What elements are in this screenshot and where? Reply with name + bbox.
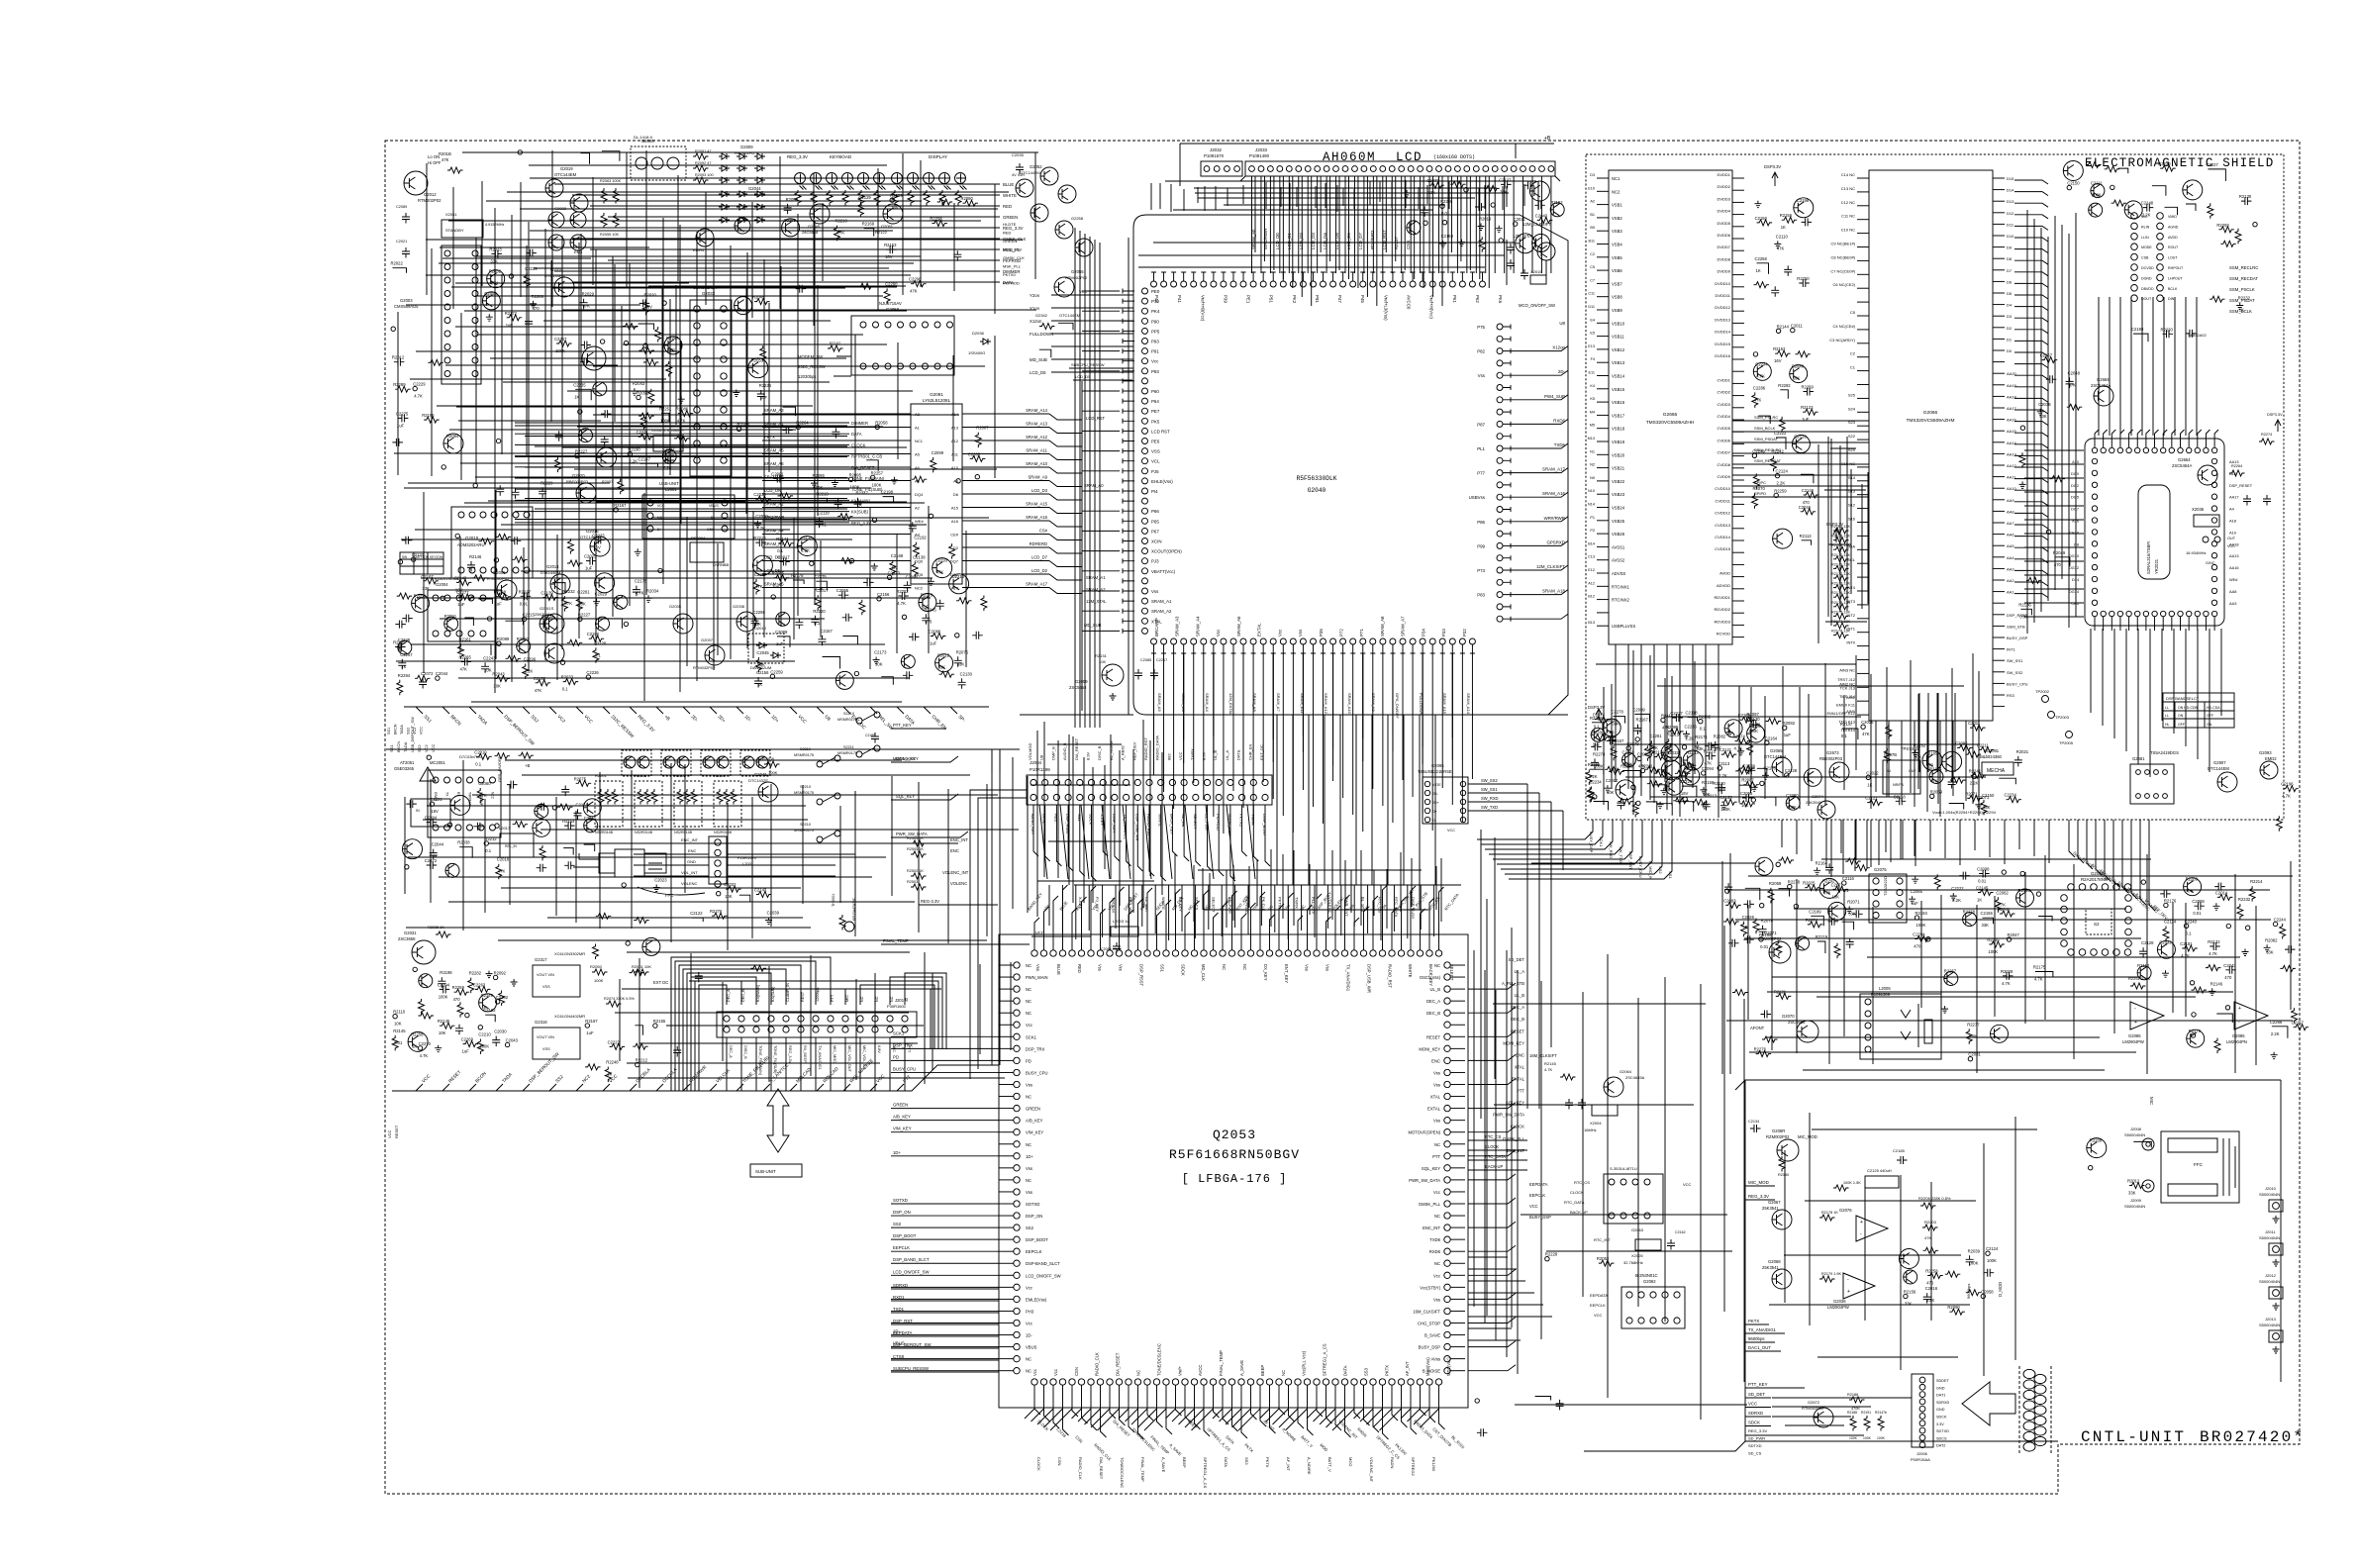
svg-text:DCVDD: DCVDD — [2141, 266, 2154, 270]
svg-text:GND: GND — [687, 859, 696, 864]
svg-text:1K: 1K — [401, 664, 406, 669]
svg-text:DSP_ON: DSP_ON — [893, 1210, 911, 1215]
svg-text:DEC_B: DEC_B — [1426, 1011, 1440, 1016]
svg-text:42: 42 — [905, 998, 909, 1002]
svg-text:TADA: TADA — [403, 741, 408, 752]
resistor R2074 330K — [606, 1001, 622, 1007]
svg-text:CLOCK: CLOCK — [1036, 1457, 1041, 1471]
wire bus AA D between dsp2 and sdram — [2026, 210, 2028, 634]
svg-text:G2022: G2022 — [554, 206, 567, 211]
svg-text:Vss: Vss — [1026, 1083, 1032, 1088]
svg-text:C6 NC(CE2): C6 NC(CE2) — [1833, 282, 1856, 287]
svg-text:10K: 10K — [1099, 659, 1106, 664]
svg-text:2.2K: 2.2K — [1970, 780, 1979, 785]
svg-text:LCD_RST: LCD_RST — [1086, 416, 1106, 421]
svg-text:C2124: C2124 — [1776, 469, 1789, 474]
svg-text:SD_CS: SD_CS — [1748, 1451, 1762, 1456]
cluster mid-left mc2051 zone — [427, 755, 431, 759]
svg-text:1K: 1K — [412, 1043, 417, 1048]
svg-text:S22: S22 — [1848, 434, 1856, 439]
svg-text:R2297: R2297 — [666, 336, 679, 341]
svg-text:10K: 10K — [493, 684, 501, 689]
svg-text:RXD1: RXD1 — [893, 1295, 905, 1300]
svg-text:NS2R014B: NS2R014B — [595, 831, 614, 834]
svg-text:C2192: C2192 — [914, 536, 927, 540]
svg-text:Vcc: Vcc — [1216, 629, 1221, 637]
svg-text:RZM002P02: RZM002P02 — [1766, 1134, 1790, 1139]
svg-text:R2176: R2176 — [2164, 899, 2177, 904]
svg-text:LCD_D5: LCD_D5 — [1030, 370, 1046, 375]
svg-text:CHG_STOP: CHG_STOP — [1418, 1322, 1440, 1326]
wire routing weave below header — [1165, 180, 1536, 182]
svg-text:CVDD6: CVDD6 — [1717, 438, 1730, 442]
svg-text:C2269: C2269 — [784, 218, 797, 223]
svg-text:MD_SUB: MD_SUB — [1084, 623, 1102, 628]
svg-text:R2152: R2152 — [1773, 346, 1786, 351]
svg-text:S5000404N: S5000404N — [2259, 1279, 2280, 1284]
transistor G2049 28C5658 — [810, 204, 830, 224]
svg-text:2.2K: 2.2K — [663, 465, 672, 470]
svg-text:1uF: 1uF — [1593, 742, 1601, 747]
svg-text:NC: NC — [1434, 1142, 1440, 1147]
svg-text:VSB10: VSB10 — [1612, 321, 1625, 326]
svg-text:R2182: R2182 — [1699, 715, 1712, 720]
svg-text:R2213: R2213 — [816, 491, 829, 496]
cluster tl lower extra B — [773, 475, 784, 483]
svg-text:P64: P64 — [1151, 399, 1159, 404]
svg-text:DISP_BUSY: DISP_BUSY — [1262, 814, 1267, 836]
svg-text:R2178: R2178 — [791, 573, 804, 578]
svg-text:AA17: AA17 — [2229, 495, 2239, 500]
svg-text:E10: E10 — [1588, 186, 1595, 190]
svg-text:SS2: SS2 — [554, 1074, 564, 1084]
fet G2055 RTM002P02 — [1054, 277, 1074, 297]
svg-text:BACK_KEY: BACK_KEY — [1169, 814, 1174, 834]
svg-text:DAT&: DAT& — [1236, 749, 1241, 760]
svg-text:D_MIC_IN: D_MIC_IN — [1648, 861, 1653, 880]
svg-text:2SC5658: 2SC5658 — [1069, 685, 1087, 690]
svg-text:R2504 1K: R2504 1K — [907, 836, 924, 840]
svg-text:D11: D11 — [2007, 222, 2014, 227]
svg-text:10K: 10K — [1832, 894, 1840, 899]
box L2017 filter — [500, 833, 534, 857]
svg-text:SD_PWR: SD_PWR — [1748, 1436, 1765, 1441]
svg-text:R2280: R2280 — [1592, 731, 1605, 735]
svg-text:C2039: C2039 — [767, 911, 780, 916]
svg-text:Vss: Vss — [1433, 1071, 1440, 1076]
sdram qfp top pin row — [2092, 447, 2097, 452]
svg-text:D14: D14 — [2007, 188, 2014, 193]
svg-text:VSB12: VSB12 — [1612, 347, 1625, 352]
svg-text:100K: 100K — [1849, 1436, 1858, 1440]
wire encoder signals — [634, 843, 855, 876]
svg-text:VCC: VCC — [1594, 1313, 1603, 1318]
svg-text:D7: D7 — [2007, 268, 2013, 273]
cluster antenna matching — [561, 786, 569, 797]
svg-text:1uF: 1uF — [585, 566, 593, 571]
svg-text:0.1: 0.1 — [777, 548, 783, 553]
svg-text:EXT_DC: EXT_DC — [850, 714, 867, 731]
svg-text:EMU0 K11: EMU0 K11 — [1836, 703, 1856, 708]
svg-text:PKTX0: PKTX0 — [1003, 272, 1016, 277]
svg-text:CVDD5: CVDD5 — [1717, 426, 1730, 431]
svg-text:TP2003: TP2003 — [2055, 715, 2070, 720]
svg-text:R2239: R2239 — [2158, 161, 2171, 166]
svg-text:R2238: R2238 — [494, 590, 507, 595]
svg-text:R2087: R2087 — [976, 426, 989, 431]
wire routing weave top-left B — [440, 246, 649, 248]
svg-text:NC2: NC2 — [915, 586, 924, 591]
svg-text:SPTREG1_A_CS: SPTREG1_A_CS — [1203, 1457, 1208, 1489]
svg-text:C2118: C2118 — [1686, 710, 1699, 715]
svg-text:LCD_D7: LCD_D7 — [1031, 555, 1048, 560]
svg-text:C2244: C2244 — [1755, 361, 1768, 366]
svg-text:SS2: SS2 — [417, 744, 422, 752]
svg-text:RTCINX2: RTCINX2 — [1612, 598, 1630, 603]
svg-text:G2085: G2085 — [2128, 1033, 2141, 1038]
svg-text:SDTXD: SDTXD — [1936, 1429, 1949, 1433]
svg-text:REG_3.3V: REG_3.3V — [1748, 1428, 1767, 1433]
svg-text:C2243: C2243 — [483, 655, 496, 660]
cluster tl mid extra C — [639, 299, 650, 307]
svg-text:AVCC0: AVCC0 — [1407, 295, 1412, 310]
svg-text:AVss: AVss — [1431, 1357, 1440, 1362]
svg-text:WHITE: WHITE — [1408, 964, 1413, 978]
svg-text:R2094: R2094 — [446, 434, 459, 439]
svg-text:C8 NC(BE0#): C8 NC(BE0#) — [1831, 254, 1856, 259]
svg-text:AVDD: AVDD — [1719, 571, 1730, 576]
svg-text:2SC5464A: 2SC5464A — [2091, 383, 2111, 388]
svg-text:SRAM_A18: SRAM_A18 — [1542, 589, 1565, 594]
svg-text:P87: P87 — [1477, 422, 1485, 427]
svg-text:C2094: C2094 — [1702, 766, 1715, 771]
svg-text:LCD_D5: LCD_D5 — [1334, 233, 1339, 249]
svg-text:100K: 100K — [2092, 193, 2102, 198]
svg-text:MODE: MODE — [2141, 245, 2152, 249]
svg-text:DEC_A: DEC_A — [727, 989, 731, 1002]
svg-text:SRAM_A2: SRAM_A2 — [1151, 609, 1172, 614]
svg-text:SDCK: SDCK — [1180, 964, 1185, 976]
svg-text:+B: +B — [1742, 925, 1748, 930]
svg-text:0.01: 0.01 — [1760, 944, 1769, 949]
transistor G2907 DTC144EM right bottom shield — [2217, 772, 2237, 792]
fet G2012 RTM202P02 standby switch — [404, 171, 428, 195]
svg-text:A16: A16 — [951, 519, 959, 524]
svg-text:DSP3.3V: DSP3.3V — [1764, 164, 1781, 169]
wire verticals MCU bottom to bus — [1153, 653, 1155, 728]
svg-text:NC2: NC2 — [1612, 189, 1620, 194]
svg-text:2.2K: 2.2K — [1952, 898, 1961, 903]
svg-text:PTT: PTT — [902, 1074, 912, 1084]
svg-text:C2072: C2072 — [425, 858, 438, 863]
svg-text:R2228: R2228 — [1545, 1252, 1558, 1257]
svg-text:G2070: G2070 — [1782, 1014, 1795, 1019]
wire +B feed over LCD header — [1180, 144, 1554, 186]
svg-text:R2179 1.9K: R2179 1.9K — [1821, 1272, 1842, 1276]
inductor C2125 440uH — [1865, 1176, 1899, 1188]
svg-text:AA3: AA3 — [2229, 601, 2236, 606]
svg-text:LCD RST: LCD RST — [1151, 429, 1170, 434]
svg-text:B9: B9 — [1590, 226, 1595, 230]
svg-text:SS2: SS2 — [893, 1222, 902, 1226]
svg-text:R2212: R2212 — [636, 1058, 648, 1063]
wire vertical right edge audio box — [2280, 1080, 2282, 1382]
svg-text:XTAL: XTAL — [1430, 1095, 1441, 1100]
svg-text:UL_A: UL_A — [1515, 969, 1525, 974]
wire trunk vertical at 1140 — [1128, 238, 1129, 715]
svg-text:R2093 100: R2093 100 — [695, 173, 714, 177]
ic Q2053 left pin col — [1014, 962, 1020, 968]
wire main bottom bus of top-left section — [404, 706, 989, 708]
svg-text:R2169: R2169 — [862, 222, 875, 227]
cluster left of sdram RC — [2020, 426, 2024, 430]
fet G2011 25K3541 pair — [544, 614, 564, 634]
svg-text:C2178: C2178 — [635, 579, 647, 584]
svg-text:R2259: R2259 — [1774, 488, 1787, 493]
svg-text:C2072: C2072 — [421, 671, 434, 676]
svg-text:R2188: R2188 — [1847, 1411, 1857, 1415]
svg-text:10K: 10K — [875, 662, 883, 667]
svg-text:G2055: G2055 — [1071, 269, 1084, 274]
svg-text:RPTRB01_C.CB: RPTRB01_C.CB — [851, 454, 882, 459]
svg-text:R2113: R2113 — [1800, 534, 1813, 539]
resistor R2178 1K — [1819, 1215, 1835, 1221]
svg-text:OTC1442M: OTC1442M — [1020, 170, 1040, 175]
wire sdram bottom verticals down — [2090, 629, 2092, 713]
svg-text:C2267: C2267 — [754, 572, 767, 577]
svg-text:Vss: Vss — [1433, 1083, 1440, 1088]
svg-text:C14 NC: C14 NC — [1841, 172, 1855, 177]
svg-text:PTT: PTT — [831, 994, 835, 1002]
svg-text:P60: P60 — [1151, 389, 1159, 394]
svg-text:R2171 13K: R2171 13K — [1831, 562, 1850, 566]
svg-text:BUSY_DSP: BUSY_DSP — [1529, 1215, 1551, 1220]
svg-text:G2064: G2064 — [1620, 1069, 1632, 1074]
svg-text:C2261: C2261 — [577, 589, 590, 594]
svg-text:TADA: TADA — [476, 714, 489, 727]
svg-text:Vss: Vss — [1298, 629, 1303, 637]
svg-text:LL: LL — [2165, 714, 2169, 718]
svg-text:Vss: Vss — [1035, 964, 1040, 971]
svg-text:232C_RESSW: 232C_RESSW — [610, 714, 635, 738]
svg-text:SELECT: SELECT — [1193, 814, 1198, 830]
ic U-G2040 R5F56330DLK outline — [1133, 215, 1568, 715]
wires LCD data lines below header — [1254, 176, 1256, 252]
wire bundle dsp-cpu signals staircase — [1477, 820, 1593, 839]
svg-text:MIC: MIC — [2149, 1097, 2154, 1105]
svg-text:C2040: C2040 — [1792, 364, 1805, 369]
svg-text:R2172: R2172 — [505, 311, 518, 316]
svg-text:C2021: C2021 — [396, 240, 407, 244]
svg-text:G2907: G2907 — [2213, 760, 2226, 765]
svg-text:U8: U8 — [1559, 321, 1565, 326]
svg-text:S2RAL316/7SBFI: S2RAL316/7SBFI — [2146, 541, 2151, 574]
wire long bus MCU area right risers — [1276, 715, 1278, 885]
svg-text:SRAM_A14: SRAM_A14 — [1466, 693, 1471, 715]
resistor R2501 10K — [634, 969, 649, 975]
svg-text:R2085: R2085 — [772, 571, 785, 576]
svg-text:R2021: R2021 — [2016, 749, 2029, 754]
svg-text:C2157: C2157 — [821, 629, 834, 634]
transistor G2015 DTC144EM — [554, 277, 574, 297]
cluster left of G2032 rc — [580, 299, 588, 310]
svg-text:BATT_V: BATT_V — [1327, 1457, 1332, 1472]
svg-text:6.8V: 6.8V — [877, 1045, 881, 1053]
svg-text:DG2: DG2 — [2071, 483, 2079, 488]
svg-text:R2003: R2003 — [635, 773, 647, 778]
svg-text:VSB16: VSB16 — [1612, 400, 1625, 405]
svg-text:VSB3: VSB3 — [1612, 229, 1622, 234]
svg-text:EXTAL: EXTAL — [1512, 1077, 1525, 1082]
svg-text:USB-UNIT: USB-UNIT — [659, 481, 679, 486]
svg-text:100K: 100K — [1969, 1260, 1979, 1265]
svg-text:SPIPC: SPIPC — [1754, 480, 1766, 485]
svg-text:G2664: G2664 — [2178, 457, 2191, 462]
svg-text:VSB9: VSB9 — [1612, 308, 1622, 313]
svg-text:C2150: C2150 — [1755, 216, 1768, 221]
svg-text:TH2001: TH2001 — [832, 893, 835, 907]
svg-text:S-3531A-I8T1U: S-3531A-I8T1U — [1610, 1166, 1637, 1171]
svg-text:S2211: S2211 — [843, 745, 854, 749]
svg-text:P00R15AA: P00R15AA — [1911, 1457, 1930, 1462]
svg-text:R2276: R2276 — [1754, 1047, 1767, 1052]
svg-text:R2174 13K: R2174 13K — [1831, 591, 1850, 595]
svg-text:SRAM_A16: SRAM_A16 — [1026, 515, 1048, 520]
transistor G2019 OTC144EM pair — [545, 179, 563, 197]
svg-text:R2137: R2137 — [519, 589, 532, 594]
svg-text:D1: D1 — [2007, 337, 2013, 342]
svg-text:REG_3.3V: REG_3.3V — [788, 1045, 792, 1064]
svg-text:FPC: FPC — [665, 893, 673, 898]
svg-text:DL-1418-9: DL-1418-9 — [634, 135, 653, 140]
fet G2020 RBE002P03 — [576, 483, 596, 503]
svg-text:12M_CLKSIFT: 12M_CLKSIFT — [1536, 564, 1565, 569]
wire Q2053 left net lines — [891, 1035, 999, 1037]
svg-text:D/A_RESET: D/A_RESET — [1116, 1352, 1121, 1376]
svg-text:RED: RED — [1077, 964, 1082, 973]
svg-text:C2243: C2243 — [2223, 963, 2236, 968]
svg-text:C2136: C2136 — [1652, 750, 1665, 755]
svg-text:DVDD2: DVDD2 — [1717, 184, 1730, 189]
svg-text:C2236: C2236 — [1685, 724, 1698, 729]
svg-text:C2167: C2167 — [421, 574, 434, 579]
svg-text:RZM002P02: RZM002P02 — [1758, 936, 1782, 941]
svg-text:REG_3.3V: REG_3.3V — [787, 154, 808, 159]
svg-text:TMS320VC5509AZHM: TMS320VC5509AZHM — [1906, 418, 1954, 424]
svg-text:BEEP: BEEP — [1187, 1419, 1198, 1429]
svg-text:EEPDATA: EEPDATA — [1529, 1182, 1548, 1187]
svg-text:R2050: R2050 — [590, 964, 603, 969]
svg-text:EMH5: EMH5 — [754, 192, 766, 197]
svg-text:DX_KEY: DX_KEY — [1263, 964, 1268, 981]
svg-text:P91: P91 — [1315, 295, 1320, 303]
svg-text:Vcc: Vcc — [1026, 1023, 1032, 1028]
svg-text:100K: 100K — [1988, 949, 1998, 954]
svg-text:S2210: S2210 — [800, 823, 811, 827]
svg-text:VSB21: VSB21 — [1612, 466, 1625, 471]
svg-text:DSP_BOOT: DSP_BOOT — [893, 1233, 917, 1238]
svg-text:1K: 1K — [1756, 268, 1761, 273]
wire verticals bus to Q2053 top — [1048, 885, 1050, 926]
svg-text:L2017: L2017 — [499, 826, 511, 831]
svg-text:1K: 1K — [757, 682, 762, 687]
wire top-left long bus lines to right — [554, 183, 1000, 185]
svg-text:SOTXD: SOTXD — [1026, 1202, 1039, 1207]
svg-text:R2146: R2146 — [469, 554, 482, 559]
svg-text:INT3: INT3 — [1846, 599, 1855, 604]
svg-text:R2034: R2034 — [646, 588, 659, 593]
svg-text:VCC: VCC — [583, 714, 594, 725]
svg-text:P93: P93 — [1151, 369, 1159, 374]
svg-text:12M_XTAL: 12M_XTAL — [1086, 599, 1107, 604]
vreg G2317 XC61GN voltage detector — [533, 965, 580, 997]
svg-text:R2082: R2082 — [2265, 937, 2278, 942]
diode D2036 1SS400G — [980, 339, 991, 344]
svg-text:R2250: R2250 — [1797, 276, 1810, 281]
svg-text:2.2K: 2.2K — [2271, 1031, 2280, 1036]
cluster audio mid extra — [1944, 972, 1958, 986]
svg-text:BCLK: BCLK — [2168, 287, 2178, 291]
svg-text:4.7K: 4.7K — [420, 1053, 429, 1058]
svg-text:N14: N14 — [1588, 503, 1595, 507]
svg-text:DG12: DG12 — [2069, 565, 2079, 570]
svg-text:G2051: G2051 — [881, 224, 894, 229]
svg-text:0.1: 0.1 — [814, 621, 820, 626]
svg-text:C2284: C2284 — [425, 816, 438, 821]
svg-text:P83: P83 — [1477, 593, 1485, 598]
svg-text:R2154: R2154 — [562, 819, 575, 824]
svg-text:VCC: VCC — [387, 1129, 392, 1138]
svg-text:C2196: C2196 — [587, 632, 600, 637]
svg-text:ADVSS: ADVSS — [1612, 571, 1625, 576]
svg-text:TX/RX: TX/RX — [1294, 897, 1299, 909]
svg-text:RTM002P02: RTM002P02 — [1065, 275, 1088, 280]
svg-text:TADA: TADA — [400, 725, 404, 735]
fet G2068 25K3541 — [1772, 1269, 1792, 1289]
ic Q2053 top pin row — [1031, 950, 1037, 956]
svg-text:BLUE: BLUE — [1003, 182, 1014, 187]
svg-text:GREEN: GREEN — [893, 1103, 908, 1108]
svg-text:S12: S12 — [1848, 503, 1856, 508]
resistor R2186 470K — [1849, 1397, 1865, 1403]
svg-text:SRAM_A1: SRAM_A1 — [1086, 575, 1106, 580]
wire nested brackets above J2017 — [699, 985, 727, 1091]
svg-text:C2130: C2130 — [1747, 717, 1760, 722]
svg-text:R5F61668RN50BGV: R5F61668RN50BGV — [1169, 1147, 1300, 1162]
svg-text:RXD6: RXD6 — [1429, 1249, 1441, 1254]
svg-text:EMH3: EMH3 — [693, 247, 705, 252]
svg-text:C2: C2 — [1850, 351, 1856, 356]
svg-text:100K: 100K — [850, 484, 860, 489]
svg-text:SDCK: SDCK — [1748, 1421, 1760, 1425]
svg-text:2.2K: 2.2K — [1926, 1298, 1935, 1303]
svg-text:2.2K: 2.2K — [1719, 773, 1727, 778]
svg-text:C2058: C2058 — [1981, 1290, 1994, 1295]
svg-text:0.1: 0.1 — [2186, 931, 2192, 935]
cluster encoder caps row — [717, 892, 721, 896]
svg-text:16V: 16V — [1774, 358, 1782, 363]
svg-text:C2099: C2099 — [932, 450, 944, 455]
svg-text:-: - — [1860, 1231, 1862, 1237]
svg-text:G2075: G2075 — [1874, 867, 1887, 872]
svg-text:25K3541: 25K3541 — [1762, 1265, 1779, 1270]
svg-text:4.7K: 4.7K — [414, 394, 423, 399]
svg-text:C2198: C2198 — [881, 490, 894, 495]
svg-text:VOUT VIN: VOUT VIN — [537, 1035, 554, 1039]
cap C2035 4V X5R — [1016, 163, 1024, 174]
svg-text:C2: C2 — [1590, 252, 1595, 256]
svg-text:VSS: VSS — [1151, 449, 1160, 454]
